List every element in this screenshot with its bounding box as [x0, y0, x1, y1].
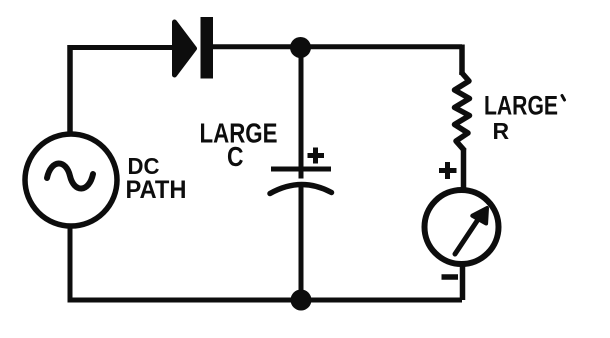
diode D1 cathode bar: [201, 17, 214, 79]
svg-text:PATH: PATH: [126, 176, 187, 204]
wire capacitor branch lower (bottom plate to junction): [299, 184, 304, 300]
ac source circle: [25, 134, 117, 226]
wire left vertical lower (source bottom to corner): [68, 226, 73, 300]
svg-text:R: R: [493, 118, 510, 144]
svg-text:C: C: [227, 141, 244, 172]
meter needle: [455, 218, 479, 254]
ac source sine symbol: [47, 163, 93, 188]
wire right vertical (corner to resistor top): [459, 45, 465, 76]
wire top-left horizontal (source to diode): [70, 45, 176, 50]
wire left vertical upper (corner to source top): [67, 45, 73, 134]
capacitor C bottom curved plate: [270, 184, 332, 193]
diode D1 anode triangle: [175, 22, 195, 75]
wire bottom horizontal: [68, 298, 463, 303]
resistor R zigzag: [455, 73, 470, 150]
meter M circle: [425, 190, 499, 264]
wire meter bottom to bottom rail: [460, 264, 466, 300]
meter minus polarity mark: [442, 274, 459, 280]
stray tick after LARGE: [562, 96, 565, 101]
svg-text:LARGE: LARGE: [484, 91, 558, 121]
meter needle arrowhead: [472, 208, 487, 224]
junction dot bottom (node B): [291, 290, 312, 311]
capacitor C top plate: [271, 167, 331, 172]
meter plus polarity mark: [439, 162, 457, 179]
wire capacitor branch upper (junction to top plate): [299, 47, 304, 179]
capacitor plus polarity mark: [308, 148, 325, 164]
junction dot top (node A): [290, 37, 311, 58]
wire top-right horizontal (diode to right corner): [210, 44, 462, 49]
wire resistor bottom to meter top: [461, 148, 467, 190]
